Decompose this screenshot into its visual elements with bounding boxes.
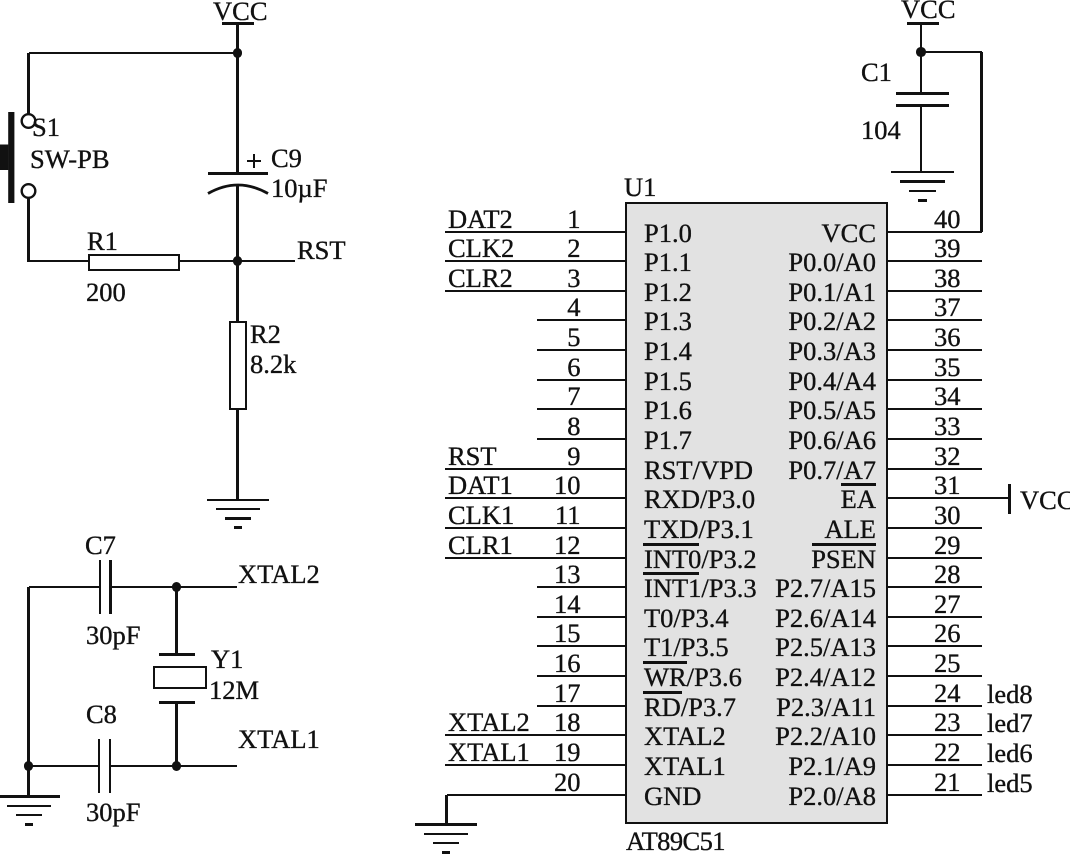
capacitor C9 curved plate	[204, 176, 274, 200]
net label XTAL2 (crystal)	[238, 560, 320, 589]
crystal Y1 body	[153, 666, 207, 689]
wire pin 10 (RXD/P3.0)	[445, 497, 626, 499]
wire pin 9 (RST/VPD)	[445, 468, 626, 470]
pin number 23	[934, 708, 961, 737]
pin name P2.1/A9	[788, 752, 876, 781]
wire down to pin 40	[980, 52, 982, 232]
wire pin 19 (XTAL1)	[445, 764, 626, 766]
wire pin 6 (P1.5)	[537, 379, 626, 381]
junction dot VCC/C1 node	[916, 47, 926, 57]
net label CLR2 (pin 3)	[448, 264, 513, 293]
label Y1	[211, 645, 243, 674]
label C9	[271, 144, 302, 173]
net label CLK2 (pin 2)	[448, 234, 514, 263]
switch S1 (SW-PB)	[0, 105, 60, 215]
wire pin 22 (P2.1/A9)	[887, 764, 982, 766]
wire pin 18 (XTAL2)	[445, 734, 626, 736]
wire pin 36 (P0.3/A3)	[887, 349, 982, 351]
pin name P2.6/A14	[775, 604, 876, 633]
label U1	[624, 173, 656, 202]
wire pin 38 (P0.1/A1)	[887, 290, 982, 292]
wire pin 3 (P1.2)	[445, 290, 626, 292]
pin name P1.1	[644, 248, 692, 277]
wire pin 4 (P1.3)	[537, 319, 626, 321]
pin name P2.0/A8	[788, 782, 876, 811]
pin number 24	[934, 679, 961, 708]
value 12M	[209, 676, 259, 705]
pin number 14	[554, 590, 581, 619]
wire VCC node to pin40 drop	[921, 51, 982, 53]
pin name XTAL2	[644, 722, 726, 751]
wire pin 37 (P0.2/A2)	[887, 319, 982, 321]
net label XTAL1 (pin 19)	[448, 738, 530, 767]
pin name RXD/P3.0	[644, 485, 755, 514]
wire pin 39 (P0.0/A0)	[887, 260, 982, 262]
pin number 25	[934, 649, 961, 678]
net label led5 (pin 21)	[987, 769, 1033, 798]
label C1	[861, 58, 892, 87]
pin number 27	[934, 590, 961, 619]
label C7	[85, 531, 116, 560]
label R2	[250, 320, 281, 349]
label S1	[32, 113, 60, 142]
pin name P1.6	[644, 396, 692, 425]
wire Y1 bottom lead	[175, 703, 177, 767]
overline WR	[643, 661, 687, 664]
pin name P2.2/A10	[775, 722, 876, 751]
pin number 18	[554, 708, 581, 737]
wire pin 14 (T0/P3.4)	[537, 616, 626, 618]
pin name P2.7/A15	[775, 574, 876, 603]
wire switch bottom vertical	[27, 198, 29, 263]
pin name INT1/P3.3	[644, 574, 757, 603]
pin number 29	[934, 531, 961, 560]
ground crystal circuit	[0, 795, 60, 798]
pin number 21	[934, 768, 961, 797]
resistor R1	[88, 254, 180, 271]
net label XTAL2 (pin 18)	[448, 708, 530, 737]
label SW-PB	[30, 145, 110, 174]
capacitor C8 left plate	[98, 739, 101, 793]
pin name P0.1/A1	[788, 278, 876, 307]
pin number 5	[567, 323, 580, 352]
junction dot ground node	[24, 761, 34, 771]
pin number 10	[554, 471, 581, 500]
net label DAT2 (pin 1)	[448, 205, 513, 234]
net label RST	[297, 236, 346, 265]
crystal Y1 top plate	[159, 653, 195, 656]
capacitor C7 right plate	[109, 560, 112, 614]
ground below R2	[207, 499, 269, 502]
pin number 20	[554, 768, 581, 797]
ground below pin 20	[415, 823, 477, 826]
pin name P0.7/A7	[788, 456, 876, 485]
wire pin 7 (P1.6)	[537, 408, 626, 410]
wire C9 to RST node	[236, 185, 238, 261]
pin name P0.0/A0	[788, 248, 876, 277]
pin number 4	[567, 293, 580, 322]
net label DAT1 (pin 10)	[448, 471, 513, 500]
wire pin 28 (P2.7/A15)	[887, 586, 982, 588]
power label VCC (pin 31)	[1020, 486, 1070, 515]
pin number 22	[934, 738, 961, 767]
pin number 9	[567, 442, 580, 471]
overline EA	[841, 483, 876, 486]
wire pin 16 (WR/P3.6)	[537, 675, 626, 677]
pin name P2.3/A11	[776, 693, 876, 722]
capacitor C7 left plate	[99, 560, 102, 614]
label AT89C51	[626, 827, 725, 855]
pin number 11	[555, 501, 581, 530]
junction dot RST node	[233, 256, 243, 266]
pin number 8	[567, 412, 580, 441]
pin number 35	[934, 353, 961, 382]
wire pin 31 (EA)	[887, 497, 1009, 499]
wire pin 8 (P1.7)	[537, 438, 626, 440]
pin name P0.6/A6	[788, 426, 876, 455]
pin name ALE	[824, 515, 876, 544]
value 30pF (C8)	[86, 798, 141, 827]
pin name TXD/P3.1	[644, 515, 754, 544]
pin number 33	[934, 412, 961, 441]
pin name T0/P3.4	[644, 604, 729, 633]
pin number 3	[567, 264, 580, 293]
wire pin 21 (P2.0/A8)	[887, 794, 982, 796]
wire pin 40 (VCC)	[887, 231, 982, 233]
pin number 13	[554, 560, 581, 589]
pin number 37	[934, 293, 961, 322]
wire Y1 top lead	[175, 587, 177, 655]
overline RD	[643, 691, 682, 694]
wire XTAL1 left segment	[29, 765, 100, 767]
pin name INT0/P3.2	[644, 545, 757, 574]
wire pin 33 (P0.6/A6)	[887, 438, 982, 440]
pin name PSEN	[811, 545, 876, 574]
wire pin 27 (P2.6/A14)	[887, 616, 982, 618]
net label CLK1 (pin 11)	[448, 501, 514, 530]
value 30pF (C7)	[86, 621, 141, 650]
pin name P2.5/A13	[775, 633, 876, 662]
wire VCC node down to C9	[236, 53, 238, 173]
wire left vertical C7-C8	[27, 587, 29, 766]
capacitor C1 top plate	[896, 92, 949, 95]
pin number 1	[567, 205, 580, 234]
pin number 30	[934, 501, 961, 530]
wire pin 13 (INT1/P3.3)	[537, 586, 626, 588]
wire pin 23 (P2.2/A10)	[887, 734, 982, 736]
pin number 36	[934, 323, 961, 352]
pin name P1.2	[644, 278, 692, 307]
overline INT0	[643, 543, 699, 546]
pin name P1.4	[644, 337, 692, 366]
wire pin 5 (P1.4)	[537, 349, 626, 351]
overline INT1	[643, 572, 699, 575]
pin name WR/P3.6	[644, 663, 742, 692]
pin number 2	[567, 234, 580, 263]
pin number 31	[934, 471, 961, 500]
pin name EA	[841, 485, 876, 514]
wire pin 24 (P2.3/A11)	[887, 705, 982, 707]
net label CLR1 (pin 12)	[448, 531, 513, 560]
pin name P2.4/A12	[775, 663, 876, 692]
capacitor C9 top plate	[208, 172, 268, 175]
wire XTAL2 left segment	[29, 586, 101, 588]
pin name P1.3	[644, 307, 692, 336]
VCC bar (top left)	[222, 22, 254, 25]
net label led8 (pin 24)	[987, 680, 1033, 709]
label C8	[86, 700, 117, 729]
pin name T1/P3.5	[644, 633, 729, 662]
pin number 19	[554, 738, 581, 767]
pin name RD/P3.7	[644, 693, 736, 722]
VCC tap bar (pin 31)	[1008, 484, 1011, 514]
IC U1 AT89C51 body	[625, 202, 888, 824]
capacitor C1 bottom plate	[896, 104, 949, 107]
pin number 26	[934, 619, 961, 648]
ground below C1	[891, 171, 954, 174]
overline PSEN	[812, 543, 876, 546]
wire pin 30 (ALE)	[887, 527, 982, 529]
wire VCC bar to node	[920, 24, 922, 52]
power label VCC (top left)	[213, 0, 268, 26]
pin name P0.3/A3	[788, 337, 876, 366]
wire pin 29 (PSEN)	[887, 557, 982, 559]
wire pin 2 (P1.1)	[445, 260, 626, 262]
junction dot XTAL1/Y1	[172, 761, 182, 771]
pin number 16	[554, 649, 581, 678]
wire C1 to ground	[920, 106, 922, 172]
pin name P0.5/A5	[788, 396, 876, 425]
wire switch top vertical	[27, 53, 29, 115]
pin name RST/VPD	[644, 456, 753, 485]
pin number 32	[934, 442, 961, 471]
net label RST (pin 9)	[448, 442, 497, 471]
wire R2 to ground	[236, 410, 238, 501]
pin number 38	[934, 264, 961, 293]
wire R1 to RST node	[180, 260, 295, 262]
wire pin 32 (P0.7/A7)	[887, 468, 982, 470]
power label VCC (top right)	[901, 0, 956, 24]
wire XTAL1 right segment	[110, 765, 237, 767]
label R1	[87, 227, 118, 256]
wire VCC node to C1	[920, 52, 922, 92]
pin number 39	[934, 234, 961, 263]
junction dot XTAL2/Y1	[172, 582, 182, 592]
capacitor C8 right plate	[109, 739, 112, 793]
value 10µF	[271, 174, 328, 203]
wire to crystal ground	[27, 766, 29, 797]
wire pin 25 (P2.4/A12)	[887, 675, 982, 677]
net label led6 (pin 22)	[987, 739, 1033, 768]
wire RST node to R2	[236, 261, 238, 322]
wire VCC bar to junction	[236, 24, 238, 53]
pin name P1.5	[644, 367, 692, 396]
net label led7 (pin 23)	[987, 709, 1033, 738]
value 200	[86, 278, 126, 307]
pin name P0.4/A4	[788, 367, 876, 396]
resistor R2	[229, 321, 248, 410]
pin name P1.7	[644, 426, 692, 455]
wire pin 17 (RD/P3.7)	[537, 705, 626, 707]
wire pin 11 (TXD/P3.1)	[445, 527, 626, 529]
pin number 40	[934, 205, 961, 234]
pin number 6	[567, 353, 580, 382]
wire pin 34 (P0.5/A5)	[887, 408, 982, 410]
value 104	[861, 116, 901, 145]
pin number 7	[567, 382, 580, 411]
wire XTAL2 right segment	[111, 586, 237, 588]
pin name P1.0	[644, 219, 692, 248]
wire pin 1 (P1.0)	[445, 231, 626, 233]
pin number 15	[554, 619, 581, 648]
wire top horizontal to switch	[29, 52, 238, 54]
pin name XTAL1	[644, 752, 726, 781]
wire switch to R1	[29, 260, 90, 262]
value 8.2k	[250, 350, 296, 379]
junction dot VCC/C9 node	[233, 48, 243, 58]
wire pin 26 (P2.5/A13)	[887, 645, 982, 647]
wire pin 15 (T1/P3.5)	[537, 645, 626, 647]
pin name VCC	[822, 219, 877, 248]
pin number 12	[554, 531, 581, 560]
pin number 17	[554, 679, 581, 708]
net label XTAL1 (crystal)	[238, 725, 320, 754]
crystal Y1 bottom plate	[159, 701, 195, 704]
VCC bar (top right)	[907, 22, 939, 25]
pin number 28	[934, 560, 961, 589]
pin name P0.2/A2	[788, 307, 876, 336]
wire pin 35 (P0.4/A4)	[887, 379, 982, 381]
wire pin 20 to ground	[445, 795, 447, 825]
wire pin 20 (GND)	[447, 794, 627, 796]
wire pin 12 (INT0/P3.2)	[445, 557, 626, 559]
pin name GND	[644, 782, 701, 811]
capacitor C9 polarity plus	[247, 160, 261, 163]
pin number 34	[934, 382, 961, 411]
